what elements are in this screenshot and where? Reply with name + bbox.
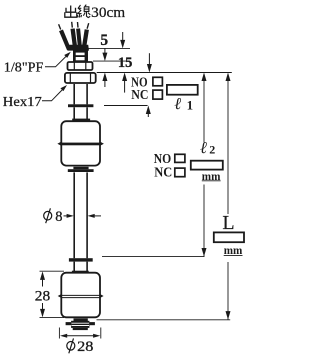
float 1 body xyxy=(61,121,100,165)
collar above float 1 xyxy=(72,119,90,122)
dim 28 bottom extension line xyxy=(40,317,65,319)
svg-text:28: 28 xyxy=(35,288,50,304)
washer 1 xyxy=(68,104,93,107)
l2 dimension line lower xyxy=(203,185,205,257)
wire base mass xyxy=(68,45,90,51)
hex facet lines xyxy=(70,74,90,83)
washer 2 xyxy=(68,169,94,172)
dim 28 top extension line xyxy=(40,270,65,272)
collar facet lines xyxy=(74,62,86,70)
rod stub xyxy=(74,262,87,271)
phi28 right extension line xyxy=(100,328,102,339)
cable label 線 (hand-drawn CJK) xyxy=(78,5,91,18)
svg-text:15: 15 xyxy=(118,55,132,71)
dimension 5 arrow xyxy=(104,48,106,54)
cable gland cap xyxy=(73,50,88,61)
phi28 text xyxy=(67,342,75,351)
switch line 1 (washer level) xyxy=(104,105,148,107)
bottom washer (float 2 top) xyxy=(69,258,93,261)
l2 value box xyxy=(191,161,223,170)
switch line 2 xyxy=(102,256,205,258)
bottom cap ridge highlights xyxy=(72,323,90,325)
l1 value box xyxy=(167,85,198,95)
float 2 band lines xyxy=(61,295,100,297)
extension line C (hex top) xyxy=(97,72,232,74)
wire bundle xyxy=(59,22,89,50)
L dimension line lower xyxy=(227,262,229,320)
svg-text:NC: NC xyxy=(154,164,172,179)
dimension phi8 text xyxy=(44,211,52,220)
hex nut Hex17 xyxy=(65,73,96,83)
dim 28 line + arrows xyxy=(40,271,45,280)
float 2 bottom neck xyxy=(74,318,88,321)
l1 lower arrow xyxy=(146,106,151,115)
bottom reference line xyxy=(97,319,231,321)
svg-text:mm: mm xyxy=(224,243,243,257)
cable label 出 (hand-drawn CJK) xyxy=(65,6,77,18)
collar above float 2 xyxy=(72,271,89,274)
collar below float 1 xyxy=(73,167,88,169)
leader 1/8"PF xyxy=(45,54,69,67)
bottom cap side tabs xyxy=(66,322,72,325)
float 2 body xyxy=(61,273,100,318)
outside up arrow at x105 xyxy=(102,73,107,82)
l2 dimension line upper xyxy=(203,74,205,142)
svg-text:1/8"PF: 1/8"PF xyxy=(4,61,44,76)
leader Hex17 xyxy=(42,88,65,101)
svg-text:8: 8 xyxy=(55,209,62,225)
svg-text:1: 1 xyxy=(187,98,194,113)
svg-text:28: 28 xyxy=(77,339,93,355)
rod upper section xyxy=(74,84,87,104)
bottom cap block xyxy=(71,321,89,328)
bottom cap lower bar xyxy=(73,328,88,330)
L value box xyxy=(214,232,244,242)
float 2 band notches xyxy=(58,294,61,298)
extension line B (collar top) xyxy=(93,60,130,62)
svg-text:5: 5 xyxy=(100,32,108,49)
phi28 dimension arrows xyxy=(60,334,67,338)
svg-text:ℓ: ℓ xyxy=(200,138,207,157)
float 1 mid band xyxy=(60,143,101,146)
svg-text:Hex17: Hex17 xyxy=(3,95,42,110)
outside up arrow at x124.6 xyxy=(122,73,127,82)
svg-text:30cm: 30cm xyxy=(91,5,125,21)
dimension phi8 arrows xyxy=(64,215,68,217)
svg-text:2: 2 xyxy=(209,142,215,156)
dimension 15 upper arrow xyxy=(122,32,124,41)
rod section xyxy=(74,107,87,119)
svg-text:NC: NC xyxy=(131,87,148,102)
svg-text:L: L xyxy=(222,212,234,234)
rod long section xyxy=(74,172,87,258)
1/8"PF thread collar xyxy=(68,62,93,70)
l1 upper arrow xyxy=(148,53,150,65)
svg-text:ℓ: ℓ xyxy=(174,94,181,113)
extension line A (cap top) xyxy=(89,47,131,49)
L dimension line upper xyxy=(227,74,229,214)
phi28 left extension line xyxy=(58,328,60,339)
